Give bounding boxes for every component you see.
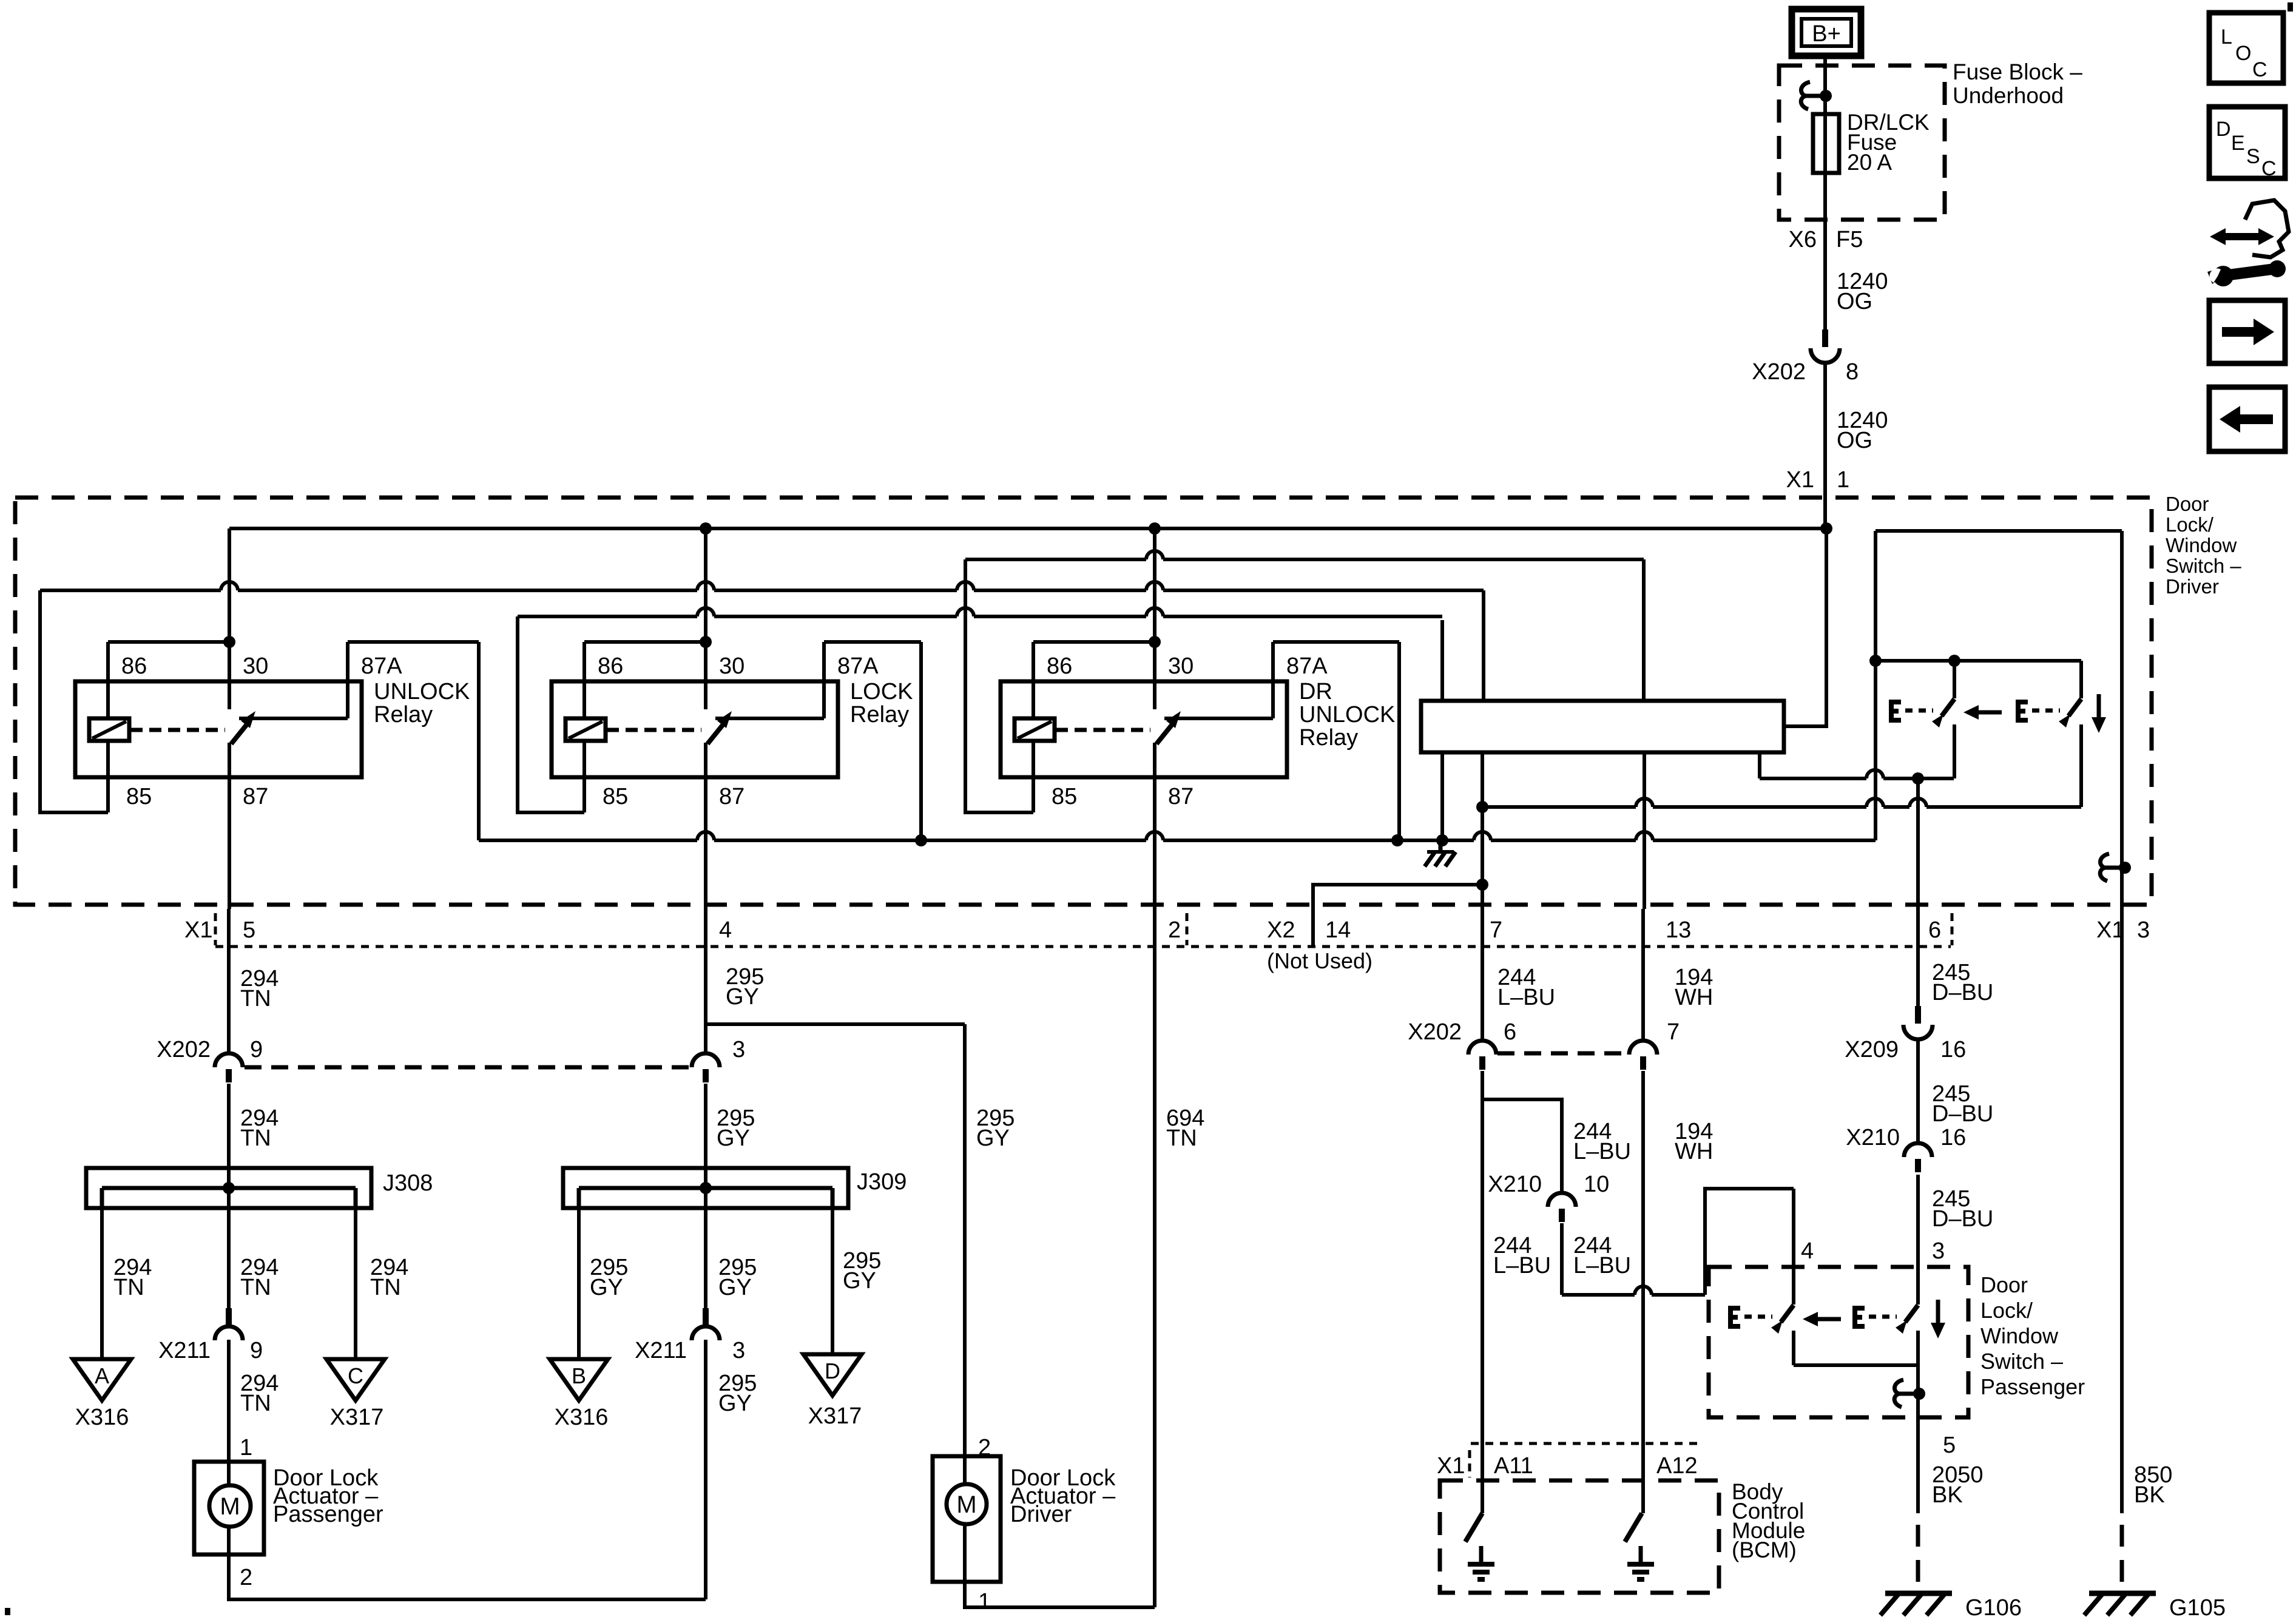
svg-text:30: 30 [243, 653, 268, 679]
svg-text:14: 14 [1325, 917, 1351, 943]
svg-text:5: 5 [1943, 1433, 1956, 1458]
svg-text:2: 2 [1168, 917, 1181, 943]
svg-text:OG: OG [1837, 289, 1872, 314]
svg-text:M: M [956, 1491, 976, 1518]
svg-text:X210: X210 [1846, 1125, 1900, 1150]
svg-text:9: 9 [250, 1338, 263, 1363]
svg-text:Underhood: Underhood [1953, 83, 2064, 108]
svg-text:13: 13 [1666, 917, 1691, 943]
svg-text:OG: OG [1837, 428, 1872, 453]
svg-text:Switch –: Switch – [2166, 555, 2241, 577]
svg-text:Relay: Relay [850, 702, 909, 727]
svg-text:X202: X202 [157, 1037, 211, 1062]
svg-text:Relay: Relay [1299, 725, 1358, 751]
svg-text:GY: GY [843, 1268, 876, 1294]
svg-text:X317: X317 [808, 1403, 862, 1429]
svg-text:BK: BK [2134, 1482, 2165, 1508]
svg-text:A11: A11 [1494, 1453, 1533, 1479]
svg-text:X6: X6 [1789, 227, 1817, 252]
svg-text:87A: 87A [837, 653, 879, 679]
svg-text:8: 8 [1846, 359, 1859, 385]
svg-text:S: S [2246, 145, 2260, 168]
svg-text:TN: TN [113, 1275, 144, 1300]
svg-text:Door: Door [2166, 493, 2209, 515]
svg-text:TN: TN [240, 1275, 271, 1300]
svg-text:10: 10 [1584, 1172, 1609, 1197]
svg-text:86: 86 [1047, 653, 1072, 679]
svg-text:87: 87 [243, 784, 268, 809]
svg-text:3: 3 [732, 1338, 745, 1363]
svg-text:3: 3 [2137, 917, 2150, 943]
svg-text:Door: Door [1980, 1272, 2028, 1297]
svg-text:J308: J308 [383, 1170, 433, 1196]
svg-text:Fuse Block –: Fuse Block – [1953, 59, 2082, 84]
svg-text:UNLOCK: UNLOCK [374, 679, 470, 704]
svg-text:7: 7 [1490, 917, 1502, 943]
svg-text:J309: J309 [857, 1169, 907, 1195]
svg-text:UNLOCK: UNLOCK [1299, 702, 1395, 727]
svg-text:85: 85 [126, 784, 152, 809]
svg-text:9: 9 [250, 1037, 263, 1062]
svg-text:X2: X2 [1267, 917, 1295, 943]
svg-text:C: C [2261, 157, 2277, 180]
svg-text:TN: TN [370, 1275, 401, 1300]
svg-text:Lock/: Lock/ [1980, 1298, 2033, 1323]
svg-text:A: A [95, 1363, 109, 1388]
svg-text:X316: X316 [555, 1405, 609, 1430]
svg-text:X1: X1 [184, 917, 212, 943]
svg-text:L–BU: L–BU [1497, 985, 1555, 1010]
svg-text:B: B [572, 1363, 586, 1388]
svg-text:GY: GY [717, 1126, 750, 1151]
svg-text:L–BU: L–BU [1573, 1253, 1631, 1278]
svg-text:E: E [2231, 132, 2245, 155]
svg-text:X211: X211 [635, 1338, 687, 1363]
svg-text:Passenger: Passenger [1980, 1374, 2085, 1399]
svg-text:F5: F5 [1836, 227, 1863, 252]
svg-text:87: 87 [1168, 784, 1194, 809]
svg-text:4: 4 [719, 917, 732, 943]
svg-text:20 A: 20 A [1847, 150, 1892, 175]
svg-text:X316: X316 [75, 1405, 129, 1430]
svg-text:Driver: Driver [2166, 575, 2219, 598]
svg-text:X211: X211 [158, 1338, 211, 1363]
svg-text:X1: X1 [1437, 1453, 1465, 1479]
svg-text:85: 85 [1052, 784, 1077, 809]
svg-text:GY: GY [718, 1275, 752, 1300]
svg-text:WH: WH [1675, 985, 1713, 1010]
svg-text:GY: GY [718, 1391, 752, 1416]
svg-text:D: D [825, 1359, 840, 1383]
svg-text:L: L [2221, 25, 2232, 49]
svg-text:6: 6 [1504, 1019, 1516, 1045]
svg-text:D–BU: D–BU [1932, 1101, 1993, 1127]
svg-text:Window: Window [1980, 1323, 2059, 1348]
svg-text:G106: G106 [1965, 1595, 2022, 1617]
svg-text:D–BU: D–BU [1932, 1206, 1993, 1232]
svg-text:O: O [2235, 42, 2251, 65]
svg-text:6: 6 [1928, 917, 1941, 943]
svg-text:D: D [2216, 118, 2231, 141]
svg-text:87A: 87A [1286, 653, 1328, 679]
svg-text:Driver: Driver [1010, 1502, 1072, 1527]
svg-text:16: 16 [1940, 1125, 1966, 1150]
svg-text:87A: 87A [361, 653, 402, 679]
svg-text:BK: BK [1932, 1482, 1963, 1508]
svg-text:2: 2 [240, 1565, 252, 1590]
svg-text:G105: G105 [2169, 1595, 2226, 1617]
svg-text:Relay: Relay [374, 702, 433, 727]
svg-text:C: C [2252, 58, 2267, 81]
svg-text:5: 5 [243, 917, 255, 943]
svg-text:X210: X210 [1488, 1172, 1542, 1197]
svg-text:(Not Used): (Not Used) [1267, 948, 1373, 973]
svg-text:3: 3 [732, 1037, 745, 1062]
svg-text:X209: X209 [1845, 1037, 1899, 1062]
svg-text:B+: B+ [1812, 21, 1841, 47]
svg-text:1: 1 [240, 1435, 252, 1460]
svg-text:1: 1 [978, 1589, 991, 1615]
svg-text:16: 16 [1940, 1037, 1966, 1062]
svg-text:7: 7 [1667, 1019, 1680, 1045]
svg-text:M: M [220, 1493, 240, 1520]
svg-text:85: 85 [603, 784, 628, 809]
svg-text:3: 3 [1932, 1238, 1945, 1264]
svg-text:4: 4 [1801, 1238, 1814, 1264]
svg-text:Lock/: Lock/ [2166, 513, 2214, 536]
svg-text:Switch –: Switch – [1980, 1349, 2063, 1374]
svg-text:X202: X202 [1752, 359, 1806, 385]
svg-text:C: C [348, 1363, 363, 1388]
svg-text:30: 30 [719, 653, 745, 679]
svg-text:1: 1 [1837, 467, 1849, 493]
svg-text:TN: TN [240, 1391, 271, 1416]
svg-text:L–BU: L–BU [1493, 1253, 1551, 1278]
svg-text:WH: WH [1675, 1139, 1713, 1164]
svg-text:Passenger: Passenger [273, 1502, 383, 1527]
svg-text:LOCK: LOCK [850, 679, 913, 704]
svg-text:X1: X1 [1786, 467, 1814, 493]
svg-text:GY: GY [590, 1275, 623, 1300]
svg-text:TN: TN [240, 986, 271, 1011]
svg-text:30: 30 [1168, 653, 1194, 679]
svg-text:A12: A12 [1656, 1453, 1698, 1479]
svg-text:D–BU: D–BU [1932, 980, 1993, 1005]
svg-text:DR: DR [1299, 679, 1332, 704]
svg-text:Window: Window [2166, 534, 2237, 556]
svg-text:87: 87 [719, 784, 745, 809]
svg-text:TN: TN [240, 1126, 271, 1151]
svg-text:GY: GY [726, 984, 759, 1010]
svg-text:(BCM): (BCM) [1732, 1538, 1797, 1562]
svg-text:TN: TN [1166, 1126, 1197, 1151]
svg-text:X317: X317 [330, 1405, 384, 1430]
svg-text:GY: GY [976, 1126, 1010, 1151]
svg-text:X202: X202 [1408, 1019, 1462, 1045]
svg-text:L–BU: L–BU [1573, 1139, 1631, 1164]
svg-text:86: 86 [121, 653, 147, 679]
svg-text:86: 86 [598, 653, 623, 679]
